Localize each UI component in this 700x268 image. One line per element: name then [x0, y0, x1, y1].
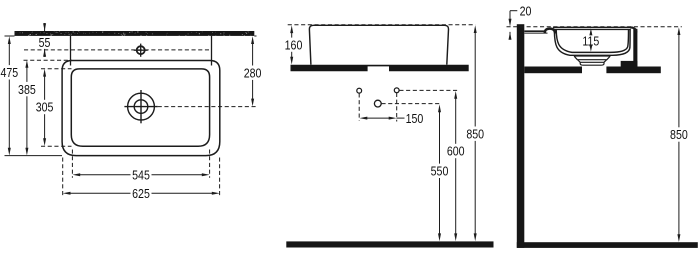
- svg-text:545: 545: [132, 167, 150, 182]
- svg-text:20: 20: [520, 3, 532, 18]
- svg-text:550: 550: [431, 163, 449, 178]
- svg-text:600: 600: [447, 144, 465, 159]
- svg-text:625: 625: [132, 186, 150, 201]
- svg-text:280: 280: [244, 65, 262, 80]
- svg-text:160: 160: [285, 37, 303, 52]
- svg-text:850: 850: [670, 127, 688, 142]
- svg-text:305: 305: [36, 100, 54, 115]
- svg-text:55: 55: [39, 35, 51, 50]
- svg-text:850: 850: [466, 126, 484, 141]
- svg-text:385: 385: [18, 82, 36, 97]
- svg-text:475: 475: [0, 65, 18, 80]
- svg-text:150: 150: [406, 111, 424, 126]
